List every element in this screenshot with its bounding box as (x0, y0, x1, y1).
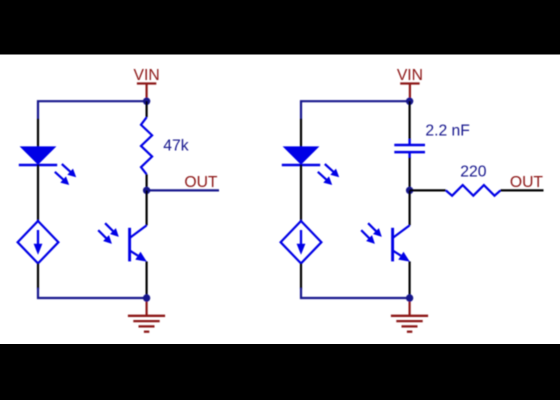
power symbol VIN (left) (137, 84, 156, 100)
svg-text:2.2 nF: 2.2 nF (425, 122, 469, 139)
svg-text:47k: 47k (163, 138, 188, 155)
capacitor C1 2.2nF (394, 139, 425, 158)
phototransistor Q1 light arrows (left) (98, 223, 119, 244)
wire: bottom rail (right) (301, 288, 410, 298)
wire: OUT (left) (147, 189, 219, 191)
wire: capacitor C1 to OUT node (right) (409, 158, 411, 191)
phototransistor Q2 (right) (393, 225, 410, 261)
phototransistor Q1 (left) (130, 225, 147, 261)
node: ground junction (right) (406, 294, 413, 301)
wire: LED cathode to current source (left) (37, 165, 39, 222)
wire: bottom rail (left) (38, 288, 147, 298)
current source I2 (right) (281, 221, 322, 263)
node: ground junction (left) (143, 294, 150, 301)
wire: current source to bottom rail corner (right) (300, 263, 302, 289)
wire: resistor R2 to OUT (right) (501, 189, 544, 191)
wire: VIN node to resistor R1 (left) (146, 101, 148, 117)
LED D1 emission arrows (55, 164, 76, 185)
node: OUT junction (right) (406, 187, 413, 194)
phototransistor Q2 light arrows (right) (361, 223, 382, 244)
svg-text:220: 220 (460, 164, 486, 181)
ground (right) (391, 298, 428, 332)
wire: VIN node to capacitor C1 (right) (409, 101, 411, 139)
ground (left) (128, 298, 165, 332)
LED D2 (282, 146, 320, 165)
wire: emitter to ground node (right) (409, 261, 411, 298)
resistor R1 47k (141, 117, 152, 174)
wire: emitter to ground node (left) (146, 261, 148, 298)
wire: VIN node to top-left corner (right) (301, 101, 410, 118)
svg-text:OUT: OUT (510, 174, 544, 191)
svg-text:VIN: VIN (134, 67, 160, 84)
wire: OUT node to phototransistor collector (left) (146, 190, 148, 225)
wire: VIN node to top-left corner (left) (38, 101, 147, 118)
node: VIN junction (right) (406, 98, 413, 105)
current source I1 (left) (18, 221, 59, 263)
resistor R2 220 (446, 185, 501, 196)
LED D1 anode lead (37, 119, 39, 147)
node: VIN junction (left) (143, 98, 150, 105)
power symbol VIN (right) (400, 84, 419, 100)
wire: resistor R1 to OUT node (left) (146, 174, 148, 190)
LED D1 (19, 146, 57, 165)
LED D2 anode lead (300, 119, 302, 147)
node: OUT junction (left) (143, 187, 150, 194)
wire: current source to bottom rail corner (left) (37, 263, 39, 289)
wire: OUT node to resistor R2 (right) (410, 189, 446, 191)
wire: OUT node to phototransistor collector (right) (409, 190, 411, 225)
LED D2 emission arrows (318, 164, 339, 185)
svg-text:VIN: VIN (397, 67, 423, 84)
wire: LED cathode to current source (right) (300, 165, 302, 222)
svg-text:OUT: OUT (184, 174, 218, 191)
